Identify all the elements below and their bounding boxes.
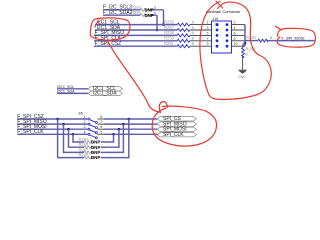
svg-text:0: 0 — [154, 6, 156, 10]
wire SDA2 vertical drop — [156, 15, 158, 30]
svg-text:R260: R260 — [246, 35, 257, 40]
svg-text:Aardvark Connector: Aardvark Connector — [206, 9, 241, 14]
node junction CSZ bypass — [56, 118, 59, 121]
wire SCL2 vertical drop — [163, 10, 165, 25]
ground — [238, 70, 246, 79]
wire F_SPI_MISO (bottom) — [17, 119, 87, 125]
svg-text:DNP: DNP — [145, 8, 154, 13]
wire / pin1 stub — [190, 21, 212, 25]
wire F_SPI_CSZ — [94, 41, 177, 47]
wire MISO return — [106, 124, 123, 152]
wire F_I2C_SDA2 — [103, 10, 157, 16]
node junction MISO return — [122, 123, 125, 126]
svg-text:0: 0 — [192, 20, 194, 24]
svg-text:2: 2 — [234, 21, 236, 25]
svg-text:R256: R256 — [164, 19, 175, 24]
red annotation circle B (around SPI_ flags) — [152, 102, 216, 146]
node junction SDA2/I2C1_SDA — [156, 29, 159, 32]
svg-text:0: 0 — [246, 53, 248, 57]
resistor R261 — [164, 41, 194, 48]
wire SPI_MOSI out — [104, 128, 157, 130]
svg-text:GND: GND — [238, 75, 246, 79]
svg-text:4: 4 — [84, 130, 86, 134]
wire I2C1_SDA stub — [57, 89, 88, 93]
svg-text:F_SPI_MOSI: F_SPI_MOSI — [282, 35, 305, 40]
svg-text:1: 1 — [207, 21, 209, 25]
wire pin4 stub — [232, 26, 246, 30]
wire / pin7 stub — [190, 37, 212, 41]
svg-text:0: 0 — [270, 36, 272, 40]
red annotation overlap stroke on circle A — [95, 21, 99, 27]
switch S5 — [78, 111, 104, 138]
wire SPI_CS out — [104, 118, 157, 120]
svg-text:1: 1 — [84, 115, 86, 119]
pin 8 — [226, 39, 229, 42]
pin 4 — [226, 29, 229, 32]
svg-text:0: 0 — [192, 31, 194, 35]
svg-text:0: 0 — [192, 26, 194, 30]
pin 7 — [216, 39, 219, 42]
wire F_SPI_CLK (bottom) — [17, 129, 87, 135]
switch element row3 — [87, 128, 104, 134]
svg-text:3: 3 — [207, 26, 209, 30]
svg-text:2: 2 — [84, 120, 86, 124]
red annotation circle A (around I2C1/F_SPI labels) — [90, 18, 130, 40]
wire / pin9 stub — [190, 42, 212, 46]
resistor R266 DNP — [79, 153, 107, 161]
svg-text:F_I2C_SDA2: F_I2C_SDA2 — [103, 10, 133, 16]
node I2C1_SDA offpage flag — [88, 91, 123, 97]
svg-text:7: 7 — [207, 37, 209, 41]
node junction MOSI bypass — [67, 128, 70, 131]
wire / pin3 stub — [190, 26, 212, 30]
node SPI_MISO offpage flag — [157, 121, 196, 127]
wire R262 to gnd — [242, 44, 244, 71]
node SPI_CLK offpage flag — [157, 132, 196, 138]
resistor R256 — [164, 19, 194, 26]
svg-text:10: 10 — [234, 42, 238, 46]
svg-text:R258: R258 — [164, 30, 175, 35]
resistor R255 DNP — [131, 10, 156, 18]
wire pin10 stub — [232, 42, 246, 46]
wire MOSI return — [106, 129, 119, 147]
wire F_SPI_MOSI — [267, 35, 315, 40]
wire CSZ bypass loop — [58, 119, 84, 158]
svg-text:I2C1_SDA: I2C1_SDA — [93, 91, 117, 97]
svg-text:8: 8 — [234, 37, 236, 41]
svg-text:4: 4 — [234, 26, 236, 30]
wire pin8 stub — [232, 37, 246, 41]
wire MOSI bypass loop — [69, 129, 85, 147]
wire CLK return — [106, 134, 114, 142]
wire F_SPI_MOSI (bottom) — [17, 124, 87, 130]
red annotation circle C (around Aardvark connector) — [200, 2, 271, 100]
wire I2C1_SCL — [95, 19, 177, 25]
node SPI_CS offpage flag — [157, 116, 196, 122]
node junction MOSI return — [118, 128, 121, 131]
node junction CLK return — [112, 133, 115, 136]
svg-text:5: 5 — [100, 130, 102, 134]
node junction R260/R262 — [244, 42, 247, 45]
pin 1 — [216, 23, 219, 26]
node SPI_MOSI offpage flag — [157, 127, 196, 133]
node junction SCL2/I2C1_SCL — [162, 23, 165, 26]
pin 10 — [226, 45, 229, 48]
wire MISO bypass loop — [64, 124, 85, 152]
svg-text:6: 6 — [234, 31, 236, 35]
pin 6 — [226, 34, 229, 37]
svg-text:3: 3 — [84, 125, 86, 129]
svg-text:R257: R257 — [164, 25, 175, 30]
svg-text:5: 5 — [207, 31, 209, 35]
svg-text:0: 0 — [192, 37, 194, 41]
svg-text:F_SPI_CLK: F_SPI_CLK — [17, 129, 44, 135]
pin 9 — [216, 45, 219, 48]
pin 2 — [226, 23, 229, 26]
svg-text:S5: S5 — [78, 111, 82, 115]
pin 3 — [216, 29, 219, 32]
resistor R254 DNP — [131, 5, 156, 13]
svg-text:7: 7 — [100, 120, 102, 124]
svg-text:R255: R255 — [131, 10, 142, 15]
svg-text:SPI_CLK: SPI_CLK — [163, 132, 184, 138]
wire I2C1_SCL stub — [57, 85, 88, 89]
wire pin6 stub — [232, 31, 246, 35]
pin 5 — [216, 34, 219, 37]
switch element row2 — [87, 123, 104, 129]
svg-text:R254: R254 — [131, 5, 142, 10]
wire right vertical bus — [244, 25, 246, 47]
resistor R263 DNP — [79, 137, 107, 145]
node junction MISO bypass — [62, 123, 65, 126]
red annotation tail A to B — [108, 42, 161, 113]
switch element row1 — [87, 118, 104, 124]
svg-text:DNP: DNP — [145, 13, 154, 18]
resistor R264 DNP — [79, 142, 107, 150]
svg-text:0: 0 — [154, 11, 156, 15]
wire to R260 — [245, 40, 258, 42]
wire SPI_MISO out — [104, 123, 157, 125]
resistor R259 — [164, 36, 194, 43]
wire F_SPI_CLK — [94, 36, 177, 42]
resistor R258 — [164, 30, 194, 37]
wire CLK bypass loop — [73, 134, 84, 142]
red annotation box D (around F_SPI_MOSI) — [276, 26, 316, 47]
resistor R260 — [246, 35, 272, 42]
svg-text:R259: R259 — [164, 36, 175, 41]
svg-text:J10: J10 — [212, 17, 218, 21]
wire F_I2C_SCL2 — [103, 5, 164, 11]
resistor R257 — [164, 25, 194, 32]
wire I2C1_SDA — [95, 25, 177, 31]
resistor R262 — [242, 43, 257, 58]
node junction CLK bypass — [72, 133, 75, 136]
svg-text:DNP: DNP — [91, 155, 100, 160]
node junction CS return — [128, 118, 131, 121]
svg-text:R261: R261 — [164, 41, 175, 46]
connector J10 Aardvark — [206, 9, 241, 53]
resistor R265 DNP — [79, 147, 107, 155]
node I2C1_SCL offpage flag — [88, 86, 123, 92]
wire pin2 stub — [232, 21, 246, 25]
svg-text:8: 8 — [100, 115, 102, 119]
wire SPI_CLK out — [104, 133, 157, 135]
wire CS return — [106, 119, 129, 158]
svg-text:I2C1_SDA: I2C1_SDA — [57, 89, 75, 93]
red annotation crossing at top of C — [216, 1, 223, 8]
wire F_SPI_CSZ (bottom) — [17, 114, 87, 120]
svg-text:6: 6 — [100, 125, 102, 129]
svg-text:9: 9 — [207, 42, 209, 46]
svg-text:I2C1_SCL: I2C1_SCL — [57, 85, 74, 89]
wire F_SPI_MISO — [94, 30, 177, 36]
svg-text:0: 0 — [192, 42, 194, 46]
switch element row4 — [87, 133, 104, 139]
wire / pin5 stub — [190, 31, 212, 35]
